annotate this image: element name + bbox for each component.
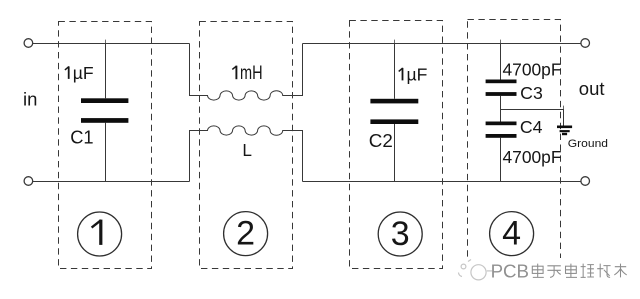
stage number 1: [78, 212, 122, 256]
svg-text:PCB: PCB: [491, 261, 529, 282]
node out: [579, 78, 605, 99]
terminal out+: [581, 39, 590, 48]
svg-text:C2: C2: [369, 130, 393, 151]
stage box 1 (dashed): [59, 22, 152, 269]
svg-text:C4: C4: [520, 117, 543, 137]
label 4700pF (C3 value): [503, 59, 562, 79]
label 1µF (C2 value): [399, 64, 428, 84]
node in: [23, 89, 37, 110]
wire C2 top branch: [394, 43, 396, 99]
wire top rail left: [33, 43, 190, 45]
stage number 3: [378, 212, 422, 256]
svg-text:mH: mH: [240, 63, 263, 84]
label Ground: [568, 138, 608, 150]
junction midpoint (tick): [563, 106, 565, 109]
svg-text:4700pF: 4700pF: [503, 59, 562, 79]
label C2: [369, 130, 393, 151]
wire C3 top branch: [500, 43, 502, 80]
stage number 4: [490, 212, 534, 256]
watermark text PCB电子电路技术: [491, 261, 627, 282]
watermark logo: [458, 260, 492, 280]
svg-text:2: 2: [236, 215, 255, 253]
wire C1 bottom branch: [105, 123, 107, 182]
capacitor C3: [486, 80, 517, 96]
svg-text:L: L: [242, 140, 252, 160]
stage number 2: [224, 212, 268, 256]
watermark band (emboss backing): [452, 258, 632, 284]
terminal in-: [24, 177, 33, 186]
wire bottom rail left: [33, 181, 190, 183]
wire top rail right: [303, 43, 581, 45]
wire C2 bottom branch: [394, 124, 396, 182]
wire bottom rail right: [303, 181, 581, 183]
junction C3 top (tick): [500, 40, 502, 43]
ground: [557, 126, 572, 136]
label C1: [70, 126, 93, 147]
terminal in+: [24, 39, 33, 48]
stage box 3 (dashed): [350, 21, 443, 269]
label 1µF (C1 value): [65, 63, 94, 83]
wire C4 bottom branch: [500, 138, 502, 182]
svg-text:in: in: [23, 89, 37, 110]
svg-text:C3: C3: [520, 83, 543, 103]
svg-text:3: 3: [391, 215, 410, 253]
capacitor C2: [370, 99, 418, 124]
stage box 4 (dashed): [468, 20, 561, 269]
capacitor C1: [81, 98, 128, 122]
wire midpoint to ground: [501, 110, 564, 126]
label L: [242, 140, 252, 160]
label 1mH (L value): [232, 63, 262, 84]
svg-text:4: 4: [502, 215, 521, 253]
wire C1 top branch: [105, 43, 107, 98]
svg-text:out: out: [579, 78, 605, 99]
terminal out-: [581, 177, 590, 186]
inductor L (upper winding, 1mH): [190, 44, 303, 101]
svg-text:Ground: Ground: [568, 138, 608, 150]
label 4700pF (C4 value): [503, 147, 562, 167]
svg-text:µF: µF: [73, 63, 94, 83]
junction C1 top (tick): [105, 40, 107, 43]
junction C2 top (tick): [394, 40, 396, 43]
stage box 2 (dashed): [200, 22, 293, 269]
wire C3-C4 midpoint branch: [500, 96, 502, 122]
inductor L (lower winding): [190, 126, 303, 182]
svg-text:C1: C1: [70, 126, 93, 147]
svg-text:4700pF: 4700pF: [503, 147, 562, 167]
capacitor C4: [486, 122, 517, 138]
label C4: [520, 117, 543, 137]
label C3: [520, 83, 543, 103]
svg-text:µF: µF: [407, 64, 428, 84]
